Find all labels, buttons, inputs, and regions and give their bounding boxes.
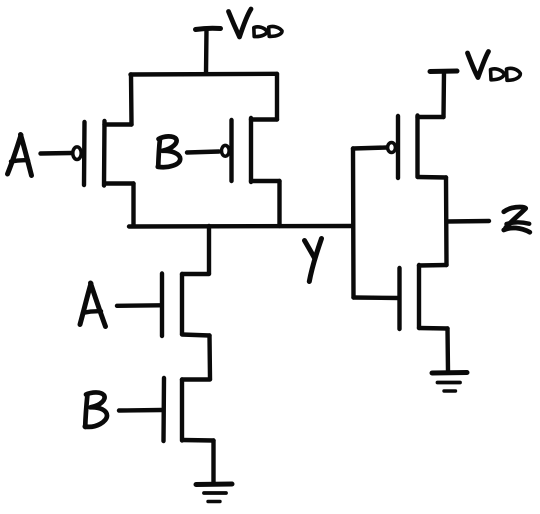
label VDD (NAND) (229, 9, 283, 37)
transistor M5 PMOS (inverter) (388, 116, 446, 179)
wire output rail (node Y) (129, 224, 352, 229)
wire M2 drain to output rail (277, 181, 281, 226)
wire top VDD rail (131, 72, 278, 77)
wire node Y to inverter input bus (351, 149, 356, 298)
wire input A to M3 gate (117, 303, 160, 308)
wire VDD stem to top rail (204, 29, 209, 74)
label Z (504, 207, 530, 232)
transistor M1 PMOS (input A) (73, 121, 134, 186)
wire rail to M1 source (129, 75, 134, 125)
power VDD bar (NAND supply) (196, 28, 221, 29)
wire input B to M2 gate (187, 152, 219, 153)
wire M3 source to M4 drain (207, 336, 212, 380)
wire M5 source to VDD (441, 72, 446, 118)
wire bus to M5 gate (353, 148, 387, 149)
transistor M3 NMOS (input A) (162, 274, 210, 337)
ground (NAND) (196, 484, 232, 502)
wire rail to M2 source (275, 74, 279, 120)
ground (inverter) (432, 373, 467, 392)
wire M5 drain to node Z (444, 178, 449, 266)
label B (M2 input) (158, 136, 180, 167)
transistor M2 PMOS (input B) (222, 118, 280, 182)
transistor M4 NMOS (input B) (164, 378, 214, 441)
label Y (305, 239, 322, 282)
wire Y rail down to M3 drain (207, 226, 211, 274)
label B (M4 input) (85, 392, 107, 427)
label VDD (inverter) (468, 52, 521, 81)
power VDD bar (inverter supply) (430, 69, 457, 75)
wire M1 drain to output rail (131, 184, 135, 227)
wire output Z tap (447, 219, 489, 224)
wire M6 source to ground (445, 329, 450, 373)
wire bus to M6 gate (354, 295, 400, 300)
wire M4 source to ground (211, 441, 215, 484)
label A (M3 input) (80, 283, 106, 327)
label A (M1 input) (8, 135, 32, 176)
transistor M6 NMOS (inverter) (400, 265, 448, 329)
wire input A to M1 gate (41, 151, 72, 156)
wire input B to M4 gate (119, 408, 162, 413)
